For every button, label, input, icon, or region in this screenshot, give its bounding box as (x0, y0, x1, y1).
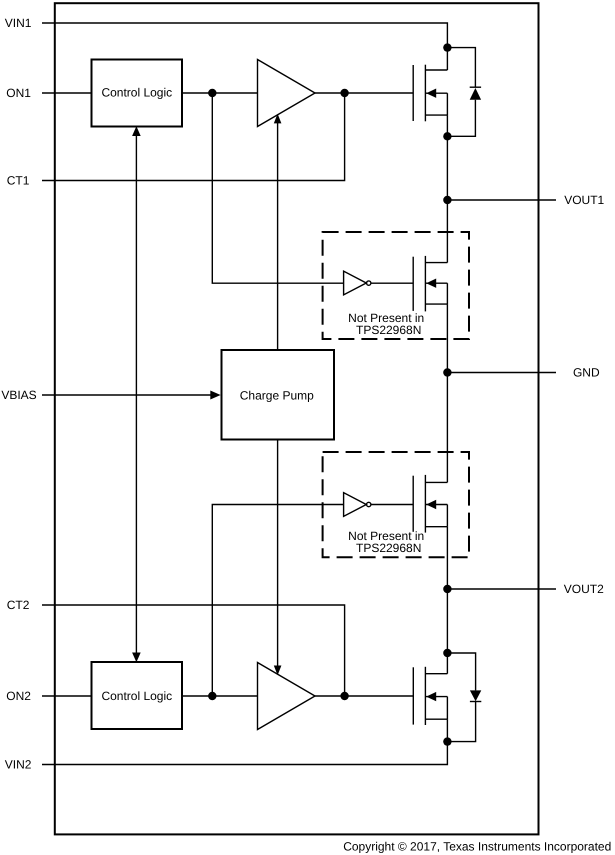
transistor Q4 (output discharge FET 2) (413, 475, 447, 533)
svg-text:GND: GND (573, 366, 600, 380)
note text: not present in TPS22968N (1) (348, 311, 424, 337)
node Q1 source junction (443, 132, 451, 140)
wire CT1 line up to buffer output node (42, 93, 345, 181)
wire inverter 2 output to discharge FET 2 gate (371, 504, 413, 506)
wire Control Logic 2 to buffer 2 input (182, 695, 258, 697)
wire buffer 2 output to MOSFET Q2 gate (315, 695, 413, 697)
node VOUT1 junction (443, 196, 451, 204)
wire ON2 line to Control Logic 2 (42, 695, 92, 697)
svg-text:CT1: CT1 (7, 174, 30, 188)
node buffer2 output / CT2 junction (340, 692, 348, 700)
diode D1 (body diode of Q1) (447, 48, 481, 137)
svg-text:VBIAS: VBIAS (1, 388, 36, 402)
outer device boundary box (55, 3, 539, 834)
wire inverter 1 output to discharge FET 1 gate (371, 282, 413, 284)
diode D2 (body diode of Q2) (447, 653, 481, 742)
svg-text:VOUT2: VOUT2 (564, 582, 604, 596)
node VIN1 / Q1 drain junction (443, 43, 451, 51)
wire output rail x=447 segments (446, 48, 448, 70)
note text: not present in TPS22968N (2) (348, 529, 424, 555)
dashed option box 1 (323, 232, 469, 339)
wire buffer 1 output to MOSFET Q1 gate (315, 92, 413, 94)
wire ON2 node up to inverter 2 input (212, 505, 343, 697)
wire VIN2 line to bottom MOSFET source (42, 742, 447, 765)
wire Charge Pump output up to buffer 1 (277, 118, 279, 350)
svg-text:VIN2: VIN2 (5, 758, 32, 772)
inverter A4 (344, 493, 371, 517)
svg-text:CT2: CT2 (7, 598, 30, 612)
svg-text:ON1: ON1 (6, 86, 31, 100)
transistor Q3 (output discharge FET 1) (413, 256, 447, 312)
svg-text:Control Logic: Control Logic (101, 689, 172, 703)
svg-text:Charge Pump: Charge Pump (240, 388, 314, 402)
node VOUT2 junction (443, 585, 451, 593)
wire Charge Pump output down to buffer 2 (277, 440, 279, 672)
transistor Q1 (high-side switch 1) (413, 65, 447, 122)
dashed option box 2 (323, 452, 469, 557)
wire GND line (447, 372, 556, 374)
control logic U2 (92, 662, 183, 729)
svg-text:Copyright © 2017, Texas Instru: Copyright © 2017, Texas Instruments Inco… (343, 839, 611, 853)
transistor Q2 (high-side switch 2) (413, 667, 447, 725)
wire VOUT2 line (447, 588, 556, 590)
VBIAS arrowhead into Charge Pump (210, 391, 220, 400)
svg-text:TPS22968N: TPS22968N (356, 541, 421, 555)
charge pump U3 (222, 350, 335, 440)
buffer amplifier A1 (258, 60, 316, 127)
node ON2 junction (208, 692, 216, 700)
svg-text:VIN1: VIN1 (5, 16, 32, 30)
svg-text:Control Logic: Control Logic (101, 86, 172, 100)
node GND junction (443, 368, 451, 376)
node buffer1 output / CT1 junction (340, 89, 348, 97)
node Q2 drain junction (443, 649, 451, 657)
buffer amplifier A2 (258, 663, 316, 730)
svg-text:VOUT1: VOUT1 (564, 193, 604, 207)
inverter A3 (344, 271, 371, 295)
svg-text:ON2: ON2 (6, 689, 31, 703)
wire CT2 line down to buffer 2 output node (42, 605, 345, 696)
wire VOUT1 line (447, 199, 556, 201)
control logic U1 (92, 60, 183, 127)
wire VIN1 line to top MOSFET drain (42, 23, 447, 48)
node Q2 source / VIN2 junction (443, 737, 451, 745)
svg-text:TPS22968N: TPS22968N (356, 323, 421, 337)
wire interconnect between Control Logic blocks (135, 129, 137, 660)
node ON1 junction (208, 89, 216, 97)
wire VBIAS line to Charge Pump (42, 394, 211, 396)
wire ON1 line to Control Logic 1 (42, 92, 92, 94)
wire ON1 node down to inverter 1 input (212, 93, 343, 283)
wire Control Logic 1 to buffer 1 input (182, 92, 258, 94)
